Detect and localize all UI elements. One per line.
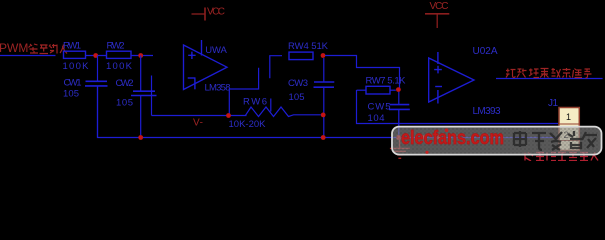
svg-text:VCC: VCC: [430, 1, 449, 12]
resistor RW4: [289, 52, 313, 60]
wire RW2 to op-amp: [132, 55, 154, 57]
resistor RW6 (pot zigzag): [229, 97, 321, 130]
svg-text:100K: 100K: [63, 61, 90, 72]
svg-text:LM393: LM393: [473, 106, 501, 117]
wire output node of UWA: [229, 56, 282, 116]
watermark CJK glyphs: [514, 131, 597, 150]
wire ground bus: [98, 87, 559, 138]
wire RW1 to RW2: [86, 55, 107, 57]
svg-text:105: 105: [116, 98, 133, 109]
ground: [390, 138, 410, 159]
svg-text:UWA: UWA: [205, 45, 227, 56]
connector J1: [548, 98, 579, 151]
node junction dot D: [226, 113, 231, 118]
node junction dot F: [396, 87, 401, 92]
svg-text:V-: V-: [193, 118, 203, 129]
resistor RW7: [357, 75, 407, 94]
svg-text:CW3: CW3: [288, 78, 308, 89]
svg-text:105: 105: [63, 89, 79, 100]
svg-text:PWM: PWM: [0, 41, 28, 55]
svg-text:105: 105: [289, 92, 305, 103]
svg-text:elecfans.com: elecfans.com: [401, 128, 504, 149]
node junction dot E: [321, 113, 326, 118]
node output signal label: [506, 68, 592, 78]
capacitor CW1: [63, 56, 108, 138]
svg-text:J1: J1: [548, 98, 558, 109]
svg-text:CW1: CW1: [64, 77, 82, 88]
resistor RW2: [107, 51, 132, 58]
svg-text:CW2: CW2: [116, 78, 134, 89]
capacitor CW5: [368, 92, 410, 138]
node junction dot B: [138, 53, 143, 58]
wire node C step to RW7 column: [325, 56, 400, 89]
svg-text:1: 1: [566, 112, 571, 122]
svg-text:LM358: LM358: [205, 83, 231, 94]
wire feedback to J1 row: [357, 90, 559, 124]
svg-text:RW6: RW6: [243, 97, 267, 108]
node bus junction dots: [138, 135, 143, 140]
node junction dot C: [321, 53, 326, 58]
op-amp UWA: [184, 40, 231, 94]
power VCC symbol (left): [192, 6, 226, 20]
capacitor CW3: [288, 58, 334, 138]
svg-text:VCC: VCC: [207, 6, 225, 17]
node PWM input label: [0, 41, 67, 55]
svg-text:RW4 51K: RW4 51K: [288, 41, 329, 52]
op-amp U02A: [429, 46, 501, 117]
svg-text:U02A: U02A: [473, 46, 498, 57]
watermark logo dots: [445, 128, 449, 132]
power VCC symbol (right): [425, 1, 449, 28]
watermark box: [392, 127, 602, 155]
svg-text:10K-20K: 10K-20K: [229, 119, 267, 130]
node junction dot A: [93, 53, 98, 58]
svg-text:RW2: RW2: [107, 41, 125, 52]
svg-text:100K: 100K: [106, 61, 133, 72]
wire V- rail: [151, 76, 153, 116]
svg-text:RW1: RW1: [63, 41, 81, 52]
resistor RW1: [64, 51, 86, 58]
wire U02A output: [496, 78, 603, 80]
capacitor CW2: [116, 56, 157, 138]
svg-text:CW5: CW5: [368, 102, 391, 113]
svg-text:RW7 5.1K: RW7 5.1K: [366, 75, 407, 86]
svg-text:104: 104: [368, 113, 385, 124]
wire input underline: [0, 55, 56, 57]
node hidden red label behind watermark: [525, 153, 598, 162]
